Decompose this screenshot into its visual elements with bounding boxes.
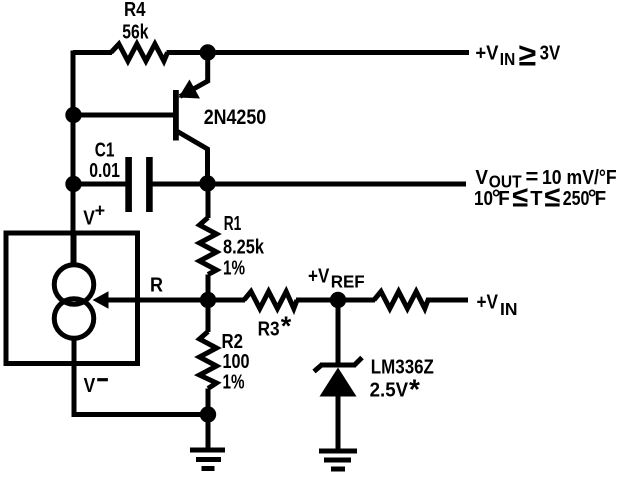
svg-text:R1: R1 (224, 213, 242, 235)
svg-text:R4: R4 (124, 0, 146, 21)
svg-text:2N4250: 2N4250 (204, 105, 267, 129)
transistor Q1 2N4250 (173, 53, 208, 184)
label 2.5V* (370, 374, 420, 405)
zener diode LM336Z (314, 358, 362, 397)
svg-text:C1: C1 (95, 139, 115, 161)
wire center main 2 (296, 298, 375, 303)
svg-text:100: 100 (223, 351, 250, 373)
svg-text:≤: ≤ (545, 182, 561, 214)
svg-text:LM336Z: LM336Z (371, 357, 434, 379)
svg-text:2.5V: 2.5V (370, 379, 409, 401)
label R3* (258, 311, 292, 341)
resistor R1 (200, 184, 217, 300)
svg-text:250: 250 (563, 188, 590, 210)
svg-text:0.01: 0.01 (89, 160, 120, 182)
resistor R4 (111, 44, 168, 61)
wire circles bottom (72, 338, 77, 364)
current source box (6, 233, 138, 364)
wire circles top (72, 233, 77, 265)
wire Vout left (73, 182, 126, 187)
svg-text:+V: +V (308, 266, 330, 288)
ground right (319, 451, 357, 469)
svg-text:*: * (281, 311, 292, 341)
wire top rail (73, 50, 112, 55)
svg-text:R2: R2 (222, 331, 244, 353)
wire zener bottom stem (336, 396, 341, 451)
label V+ (83, 201, 105, 230)
resistor R3 (244, 292, 297, 309)
node junction C1 left (65, 176, 81, 192)
label +Vref (308, 266, 365, 292)
arrow into current source (93, 291, 109, 308)
node junction top (200, 44, 216, 60)
wire base (73, 113, 176, 118)
node junction base (65, 107, 81, 123)
svg-text:+: + (95, 201, 106, 221)
node junction R (200, 292, 216, 308)
node junction collector (199, 175, 215, 191)
svg-text:IN: IN (500, 299, 518, 319)
ground left (190, 450, 225, 469)
svg-text:+V: +V (477, 292, 499, 314)
svg-text:F: F (595, 188, 607, 210)
svg-text:REF: REF (331, 271, 365, 291)
label +Vin right (477, 292, 518, 319)
svg-text:1%: 1% (223, 258, 245, 280)
wire ground left stem (206, 415, 211, 451)
svg-text:V: V (84, 375, 96, 397)
resistor R2 (200, 300, 217, 415)
wire center main 3 (431, 298, 468, 303)
svg-text:56k: 56k (122, 22, 149, 44)
svg-text:10: 10 (474, 188, 493, 210)
svg-text:*: * (409, 374, 420, 405)
wire bottom (74, 364, 208, 415)
svg-text:IN: IN (500, 49, 515, 69)
svg-text:3V: 3V (540, 43, 561, 65)
wire Vout right (152, 182, 466, 187)
label temperature range (474, 182, 606, 214)
resistor right unnamed (374, 292, 432, 309)
svg-text:1%: 1% (223, 372, 245, 394)
node junction Vref (330, 292, 346, 308)
svg-text:V: V (475, 167, 488, 189)
wire center main (104, 298, 245, 303)
svg-text:≤: ≤ (512, 182, 528, 214)
wire top rail right (167, 50, 470, 55)
svg-text:≥: ≥ (519, 36, 537, 72)
svg-text:T: T (530, 188, 542, 210)
wire zener top (336, 300, 341, 364)
svg-text:8.25k: 8.25k (223, 237, 265, 259)
svg-text:F: F (498, 188, 510, 210)
svg-text:R: R (150, 275, 163, 297)
current source circles (54, 265, 94, 339)
wire left rail (71, 51, 76, 265)
svg-text:R3: R3 (258, 319, 280, 341)
capacitor C1 (125, 157, 152, 212)
node junction bottom (200, 406, 216, 422)
svg-text:+V: +V (475, 43, 499, 65)
label +VIN >= 3V (475, 36, 560, 72)
label V- (84, 375, 108, 397)
label Vout equation (475, 164, 616, 191)
